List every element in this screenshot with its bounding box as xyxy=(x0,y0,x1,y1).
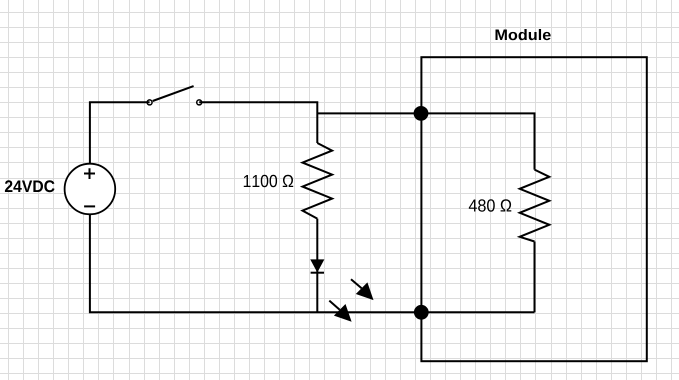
value label 480 ohm xyxy=(469,199,511,211)
junction dot (top, module input +) xyxy=(414,106,429,121)
wire from switch to resistor R1 branch xyxy=(199,102,317,143)
value label 24VDC xyxy=(5,180,55,192)
wire bottom rail from voltage source to module xyxy=(90,214,535,312)
LED D1 (diode triangle and cathode bar) xyxy=(311,260,324,273)
wire from resistor 480 bottom to bottom rail xyxy=(534,242,536,313)
LED emission arrow (lower) xyxy=(329,301,351,322)
junction dot (bottom, module input -) xyxy=(414,305,429,320)
wire from node at x=317 to module node and resistor 480 xyxy=(317,113,534,169)
label Module xyxy=(495,29,550,40)
wire from voltage source top to switch xyxy=(90,102,150,164)
resistor 480 ohm xyxy=(520,170,550,242)
value label 1100 ohm xyxy=(244,175,293,187)
module box xyxy=(421,57,646,361)
voltage source 24VDC xyxy=(65,164,116,215)
resistor 1100 ohm xyxy=(303,143,333,219)
LED emission arrow (upper) xyxy=(351,279,374,300)
switch (open, SPST) xyxy=(147,86,202,105)
wire from resistor R1 through LED to bottom rail xyxy=(316,219,318,313)
